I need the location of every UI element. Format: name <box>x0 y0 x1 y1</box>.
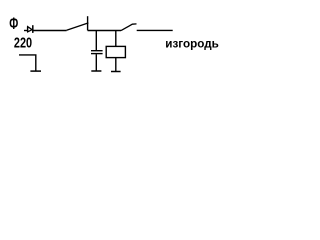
svg-text:изгородь: изгородь <box>165 36 219 50</box>
svg-text:Ф: Ф <box>9 14 18 33</box>
svg-text:220: 220 <box>14 35 32 51</box>
